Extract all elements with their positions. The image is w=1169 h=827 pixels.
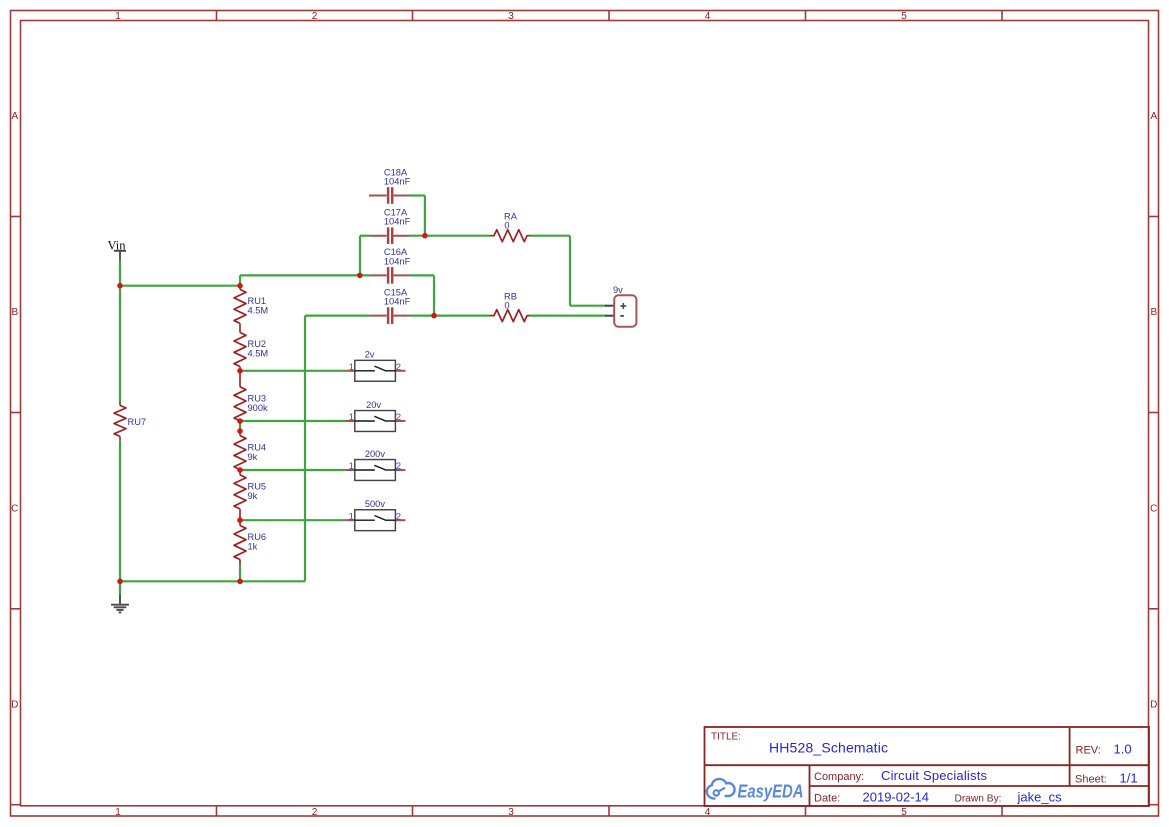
wire — [409, 274, 434, 276]
svg-text:9k: 9k — [248, 452, 258, 462]
junction — [237, 283, 243, 289]
svg-text:500v: 500v — [365, 499, 386, 509]
wire — [409, 194, 425, 196]
wire — [530, 315, 606, 317]
resistor RA — [490, 211, 530, 241]
junction — [237, 428, 243, 434]
wire — [240, 420, 345, 422]
wire — [569, 236, 571, 306]
wire — [240, 469, 345, 471]
svg-text:1: 1 — [349, 412, 354, 423]
wire — [530, 235, 570, 237]
svg-text:9v: 9v — [613, 285, 623, 295]
svg-text:1: 1 — [349, 461, 354, 472]
svg-text:4.5M: 4.5M — [248, 306, 269, 316]
svg-text:HH528_Schematic: HH528_Schematic — [769, 740, 888, 756]
svg-text:2: 2 — [396, 511, 401, 522]
svg-text:RU7: RU7 — [128, 417, 147, 427]
wire — [120, 285, 240, 287]
svg-text:RU2: RU2 — [248, 339, 267, 349]
svg-text:5: 5 — [901, 807, 907, 818]
svg-text:A: A — [1150, 111, 1157, 122]
svg-text:0: 0 — [504, 221, 509, 231]
svg-text:2: 2 — [396, 461, 401, 472]
svg-text:TITLE:: TITLE: — [711, 732, 741, 743]
net flag Vin — [108, 238, 127, 260]
junction — [431, 313, 437, 319]
junction — [422, 233, 428, 239]
svg-text:3: 3 — [508, 807, 514, 818]
svg-text:EasyEDA: EasyEDA — [738, 782, 804, 802]
switch SW2 (20v) — [345, 400, 405, 432]
junction — [357, 273, 363, 279]
svg-text:REV:: REV: — [1076, 745, 1101, 757]
wire — [305, 315, 370, 317]
svg-text:4.5M: 4.5M — [248, 349, 269, 359]
svg-text:1: 1 — [349, 362, 354, 373]
svg-text:104nF: 104nF — [384, 256, 411, 266]
wire — [239, 421, 241, 431]
svg-text:2: 2 — [312, 11, 318, 22]
wire — [424, 196, 426, 236]
svg-text:C: C — [11, 503, 18, 514]
svg-text:104nF: 104nF — [384, 297, 411, 307]
junction — [237, 467, 243, 473]
svg-text:0: 0 — [504, 301, 509, 311]
resistor RU3 — [234, 371, 268, 421]
svg-text:Drawn By:: Drawn By: — [955, 794, 1002, 805]
wire — [119, 260, 121, 401]
svg-text:B: B — [11, 307, 18, 318]
EasyEDA logo — [707, 779, 804, 802]
title block — [705, 727, 1150, 806]
wire — [240, 519, 345, 521]
wire — [359, 236, 361, 276]
svg-text:4: 4 — [705, 807, 711, 818]
svg-text:1: 1 — [115, 807, 121, 818]
svg-text:jake_cs: jake_cs — [1017, 790, 1063, 805]
svg-text:B: B — [1150, 307, 1157, 318]
wire — [570, 305, 606, 307]
svg-text:200v: 200v — [365, 449, 386, 459]
svg-text:9k: 9k — [248, 491, 258, 501]
wire — [120, 580, 305, 582]
junction — [117, 283, 123, 289]
svg-text:D: D — [1150, 700, 1157, 711]
svg-text:A: A — [11, 111, 18, 122]
resistor RU2 — [234, 333, 268, 371]
wire — [433, 275, 435, 315]
svg-text:RU3: RU3 — [248, 394, 267, 404]
wire — [239, 275, 241, 285]
svg-text:2: 2 — [396, 362, 401, 373]
resistor RU1 — [234, 286, 268, 333]
svg-text:2019-02-14: 2019-02-14 — [863, 790, 930, 805]
svg-text:1: 1 — [115, 11, 121, 22]
svg-text:20v: 20v — [366, 400, 381, 410]
wire — [239, 565, 241, 581]
svg-text:104nF: 104nF — [384, 217, 411, 227]
svg-text:3: 3 — [508, 11, 514, 22]
resistor RB — [490, 291, 530, 321]
svg-text:Date:: Date: — [814, 793, 840, 805]
junction — [237, 517, 243, 523]
battery 9v — [605, 285, 636, 326]
switch SW4 (500v) — [345, 499, 405, 531]
svg-text:Sheet:: Sheet: — [1075, 774, 1107, 786]
wire — [304, 316, 306, 582]
resistor RU5 — [234, 470, 266, 520]
svg-text:D: D — [11, 700, 18, 711]
capacitor C15A 104nF — [370, 287, 411, 324]
svg-text:C: C — [1150, 503, 1157, 514]
svg-text:2: 2 — [396, 412, 401, 423]
svg-text:RU4: RU4 — [248, 442, 267, 452]
svg-text:5: 5 — [901, 11, 907, 22]
svg-text:Company:: Company: — [814, 771, 864, 783]
resistor RU6 — [234, 520, 266, 565]
svg-text:1: 1 — [349, 511, 354, 522]
junction — [237, 418, 243, 424]
svg-text:2: 2 — [312, 807, 318, 818]
wire — [409, 235, 490, 237]
wire — [119, 441, 121, 582]
svg-text:RU1: RU1 — [248, 296, 267, 306]
svg-text:1/1: 1/1 — [1120, 771, 1138, 786]
junction — [237, 368, 243, 374]
junction — [237, 579, 243, 585]
svg-text:1k: 1k — [248, 542, 258, 552]
wire — [360, 235, 370, 237]
wire — [240, 274, 370, 276]
wire — [409, 315, 490, 317]
svg-text:900k: 900k — [248, 403, 269, 413]
resistor RU7 — [114, 401, 146, 441]
svg-text:1.0: 1.0 — [1114, 742, 1132, 757]
svg-text:2v: 2v — [365, 350, 375, 360]
switch SW3 (200v) — [345, 449, 405, 481]
svg-text:Circuit Specialists: Circuit Specialists — [881, 768, 988, 783]
svg-text:RU5: RU5 — [248, 482, 267, 492]
capacitor C18A 104nF — [369, 167, 411, 204]
switch SW1 (2v) — [345, 350, 405, 382]
wire — [240, 370, 345, 372]
capacitor C17A 104nF — [370, 208, 411, 245]
capacitor C16A 104nF — [370, 247, 411, 284]
svg-text:104nF: 104nF — [384, 177, 411, 187]
ground — [111, 581, 129, 612]
svg-text:4: 4 — [705, 11, 711, 22]
svg-text:RU6: RU6 — [248, 532, 267, 542]
junction — [117, 579, 123, 585]
resistor RU4 — [234, 431, 266, 470]
